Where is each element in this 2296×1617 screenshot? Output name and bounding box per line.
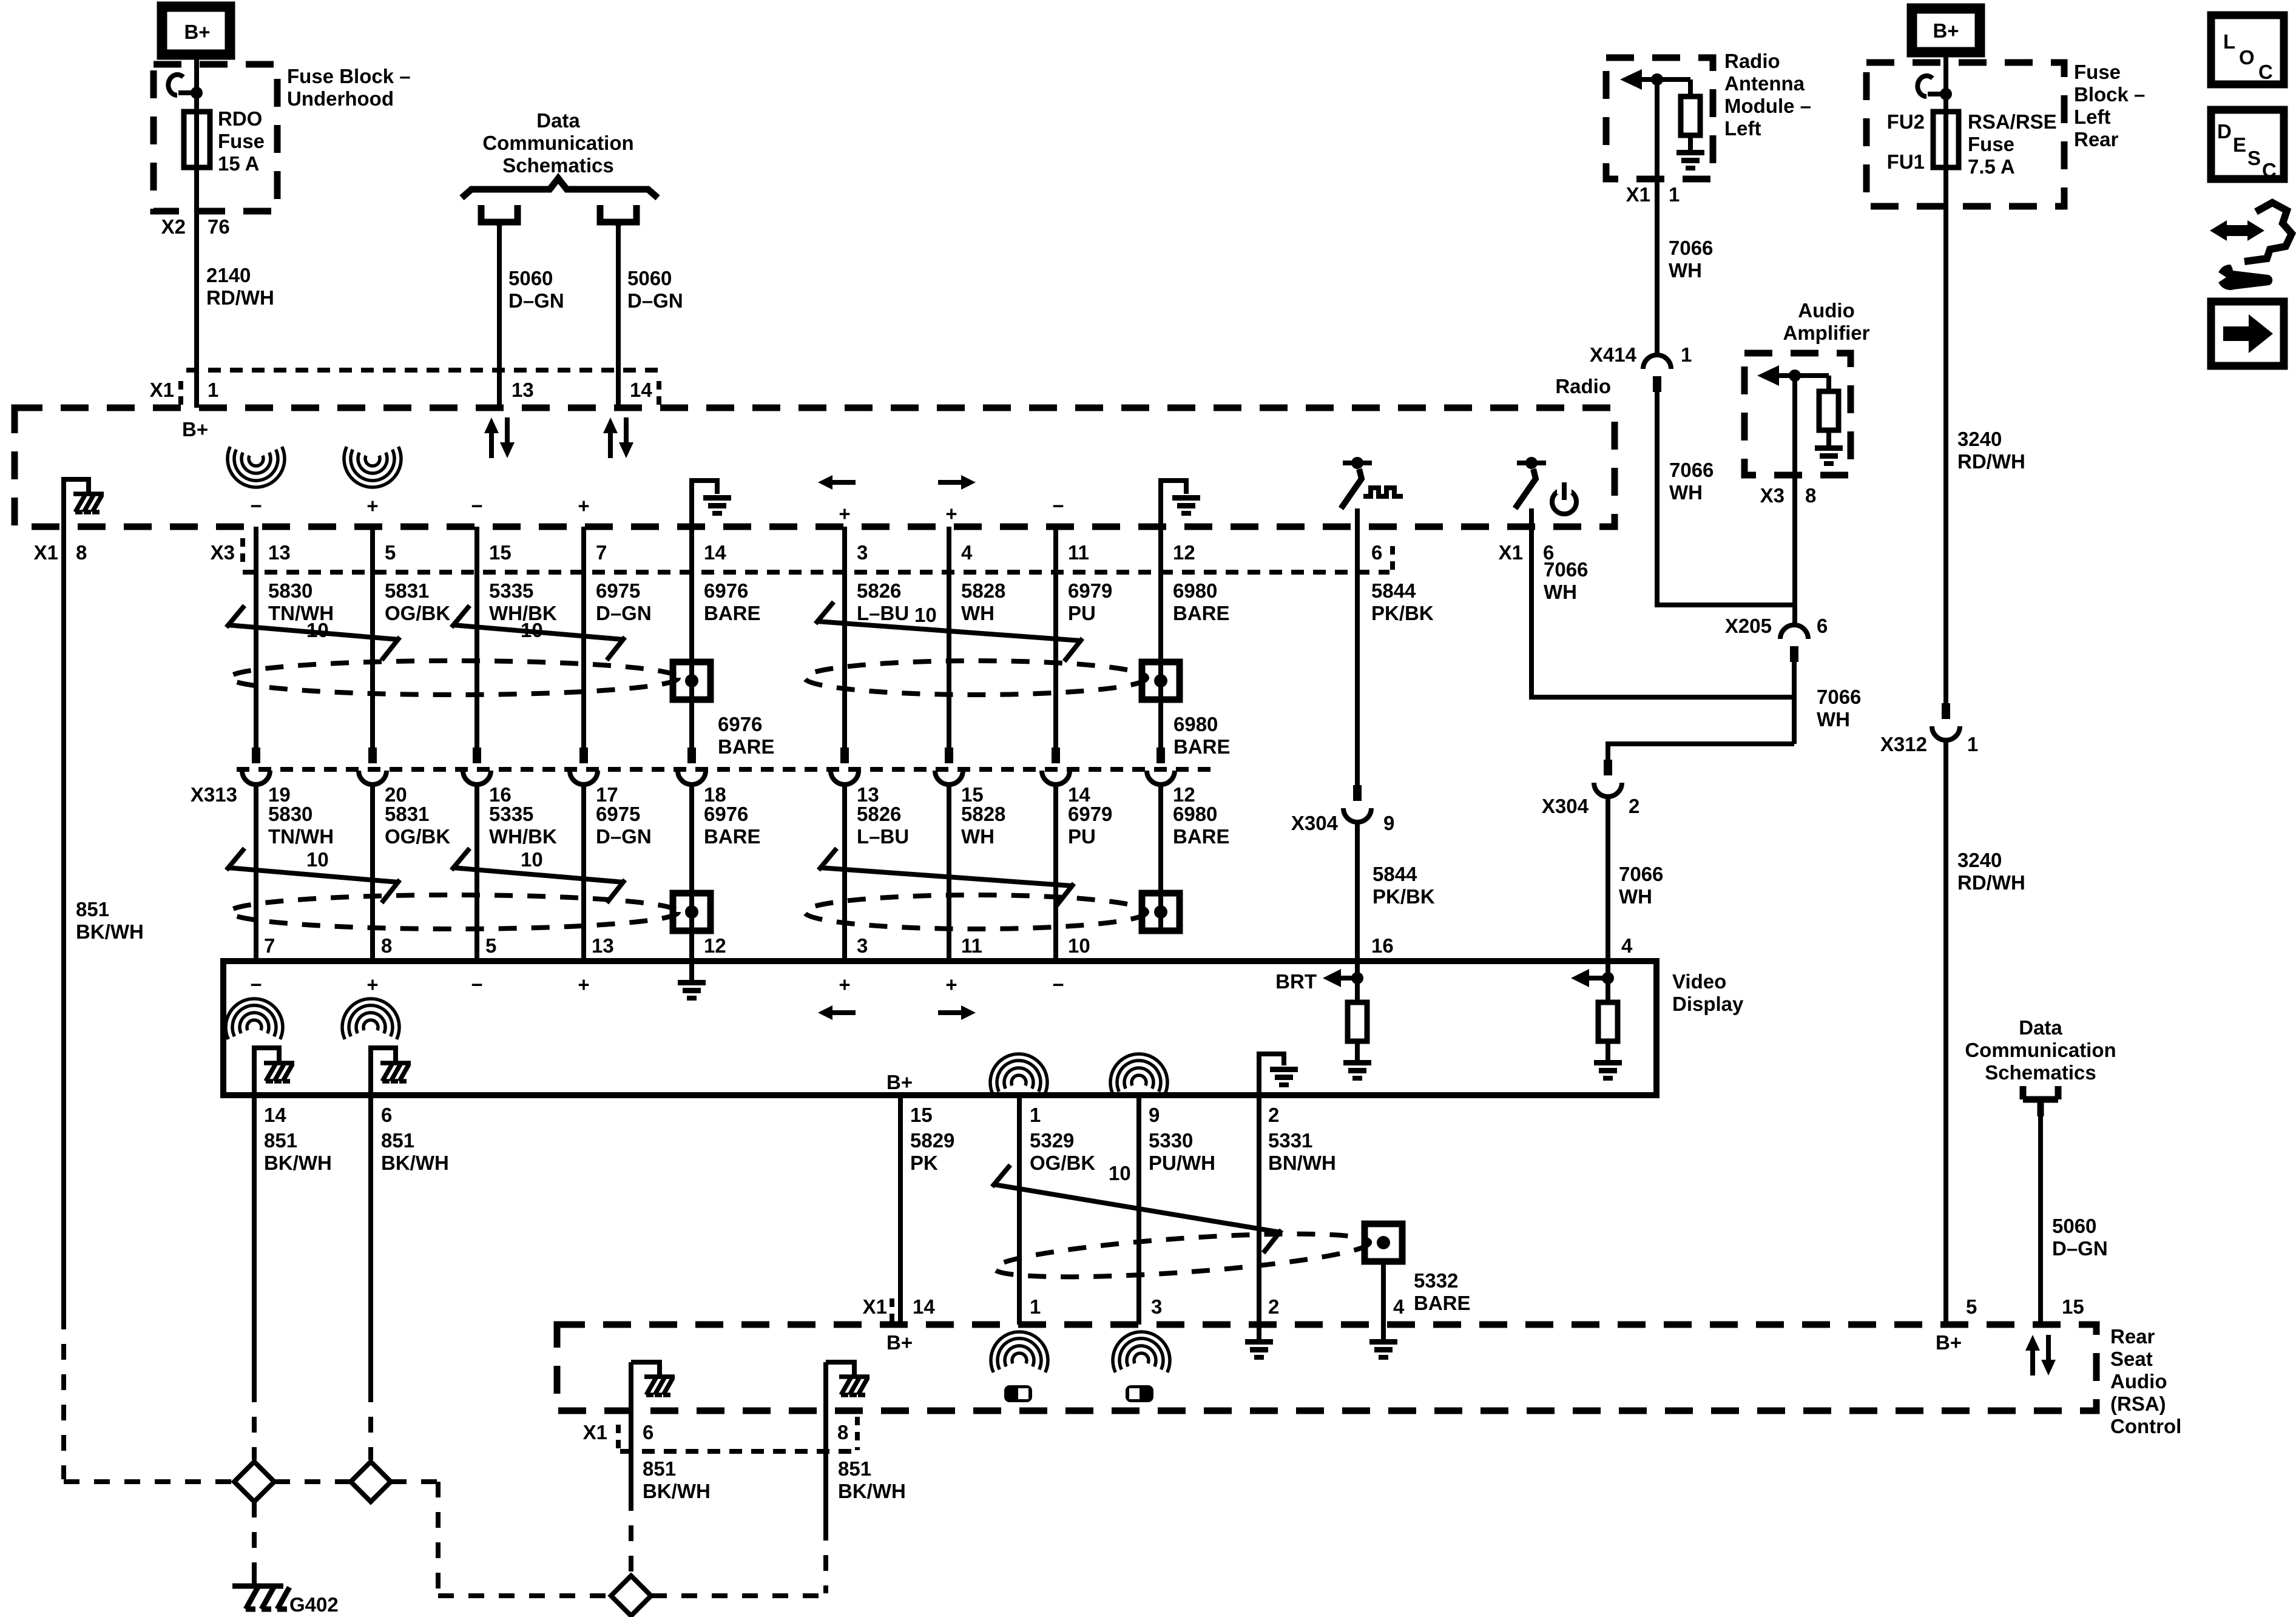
wire 851 BK/WH (vd pin 6)	[368, 1095, 373, 1386]
svg-text:4: 4	[1621, 934, 1633, 957]
wire 5332 BARE to RSA	[1381, 1261, 1386, 1325]
speaker arcs inside RSA (pin 1)	[991, 1332, 1048, 1372]
brace for data communication	[462, 178, 658, 198]
svg-text:7066: 7066	[1817, 686, 1861, 708]
video display pin labels (top)	[264, 934, 1633, 957]
svg-text:5332: 5332	[1414, 1269, 1458, 1292]
svg-text:WH: WH	[1544, 581, 1577, 603]
svg-text:Display: Display	[1672, 993, 1744, 1015]
fuse RSA/RSE	[1933, 112, 1959, 167]
svg-text:Communication: Communication	[1965, 1039, 2116, 1061]
svg-text:B+: B+	[1933, 19, 1959, 42]
fader icon (pin 1)	[1004, 1385, 1032, 1402]
svg-text:14: 14	[264, 1104, 286, 1126]
svg-text:WH/BK: WH/BK	[489, 825, 557, 848]
svg-text:Amplifier: Amplifier	[1783, 322, 1869, 344]
wire 7066 WH jog to X304	[1608, 744, 1794, 760]
shield ellipse (group 2 lower)	[805, 895, 1147, 929]
svg-text:B+: B+	[182, 418, 208, 441]
svg-text:PK: PK	[910, 1152, 938, 1174]
svg-text:BK/WH: BK/WH	[264, 1152, 332, 1174]
wire 6976 BARE upper	[689, 527, 694, 748]
wire label 5060 D-GN (right)	[2052, 1215, 2108, 1260]
svg-text:10: 10	[1068, 934, 1090, 957]
svg-text:11: 11	[961, 934, 982, 957]
Rear Seat Audio (RSA) Control label	[2110, 1325, 2181, 1437]
svg-text:Communication: Communication	[482, 132, 633, 154]
svg-text:BARE: BARE	[1173, 825, 1230, 848]
wire label 7066 WH (below X414)	[1669, 459, 1714, 504]
antenna arrow and junction dot	[1620, 69, 1690, 90]
svg-text:6979: 6979	[1068, 579, 1112, 602]
switch symbol (pin 6 mute)	[1341, 457, 1403, 527]
Fuse Block - Left Rear label	[2074, 61, 2145, 150]
svg-text:Data: Data	[536, 109, 580, 132]
svg-text:D–GN: D–GN	[627, 289, 683, 312]
amplifier ground	[1815, 430, 1843, 466]
svg-text:O: O	[2239, 46, 2255, 69]
shield ellipse (5329/5330)	[993, 1225, 1371, 1285]
svg-text:15: 15	[489, 541, 512, 564]
svg-text:OG/BK: OG/BK	[1030, 1152, 1095, 1174]
svg-text:Rear: Rear	[2110, 1325, 2155, 1348]
svg-text:Underhood: Underhood	[287, 87, 394, 110]
connector X3 pin 8 labels (amplifier)	[1760, 484, 1817, 507]
dashed wire below left diamond to G402	[252, 1502, 257, 1571]
svg-text:5: 5	[385, 541, 396, 564]
antenna ground	[1676, 135, 1704, 170]
svg-text:Left: Left	[2074, 106, 2111, 128]
svg-text:6979: 6979	[1068, 803, 1112, 825]
svg-text:Radio: Radio	[1724, 50, 1780, 72]
wire label 2140 RD/WH	[206, 264, 274, 309]
LOC icon box	[2211, 15, 2284, 84]
chassis ground inside RSA (X1-6)	[631, 1362, 675, 1395]
svg-text:Audio: Audio	[1798, 299, 1854, 322]
wire 851 BK/WH (vd pin 14)	[252, 1095, 257, 1386]
svg-text:BK/WH: BK/WH	[76, 920, 144, 943]
connector X1 row (radio top) dotted line	[186, 368, 661, 373]
svg-text:10: 10	[521, 619, 543, 641]
svg-text:Radio: Radio	[1555, 375, 1611, 397]
X3 tick	[240, 538, 245, 564]
wire 5828 WH upper	[947, 527, 951, 748]
shield ellipse (group 2 upper)	[805, 661, 1147, 695]
svg-text:RDO: RDO	[218, 107, 262, 130]
svg-text:2: 2	[1629, 795, 1639, 817]
wire labels below video display	[264, 1129, 1336, 1174]
resistor (BRT)	[1348, 1002, 1367, 1041]
svg-text:5844: 5844	[1371, 579, 1416, 602]
svg-text:Left: Left	[1724, 117, 1761, 140]
svg-text:X304: X304	[1291, 812, 1339, 834]
Audio Amplifier dashed box	[1744, 353, 1851, 475]
wire 5335 WH/BK upper	[474, 527, 479, 748]
svg-text:C: C	[2262, 159, 2277, 181]
svg-text:10: 10	[521, 848, 543, 871]
label 6980 BARE (below shield box)	[1173, 713, 1231, 758]
svg-text:−: −	[250, 973, 262, 996]
svg-text:Rear: Rear	[2074, 128, 2119, 150]
svg-text:5826: 5826	[857, 803, 901, 825]
svg-text:5830: 5830	[268, 579, 312, 602]
svg-text:BARE: BARE	[1173, 602, 1230, 624]
svg-text:BN/WH: BN/WH	[1268, 1152, 1336, 1174]
dashed link diamond to 851 right wire	[651, 1593, 826, 1598]
svg-text:7066: 7066	[1669, 237, 1713, 259]
svg-text:BK/WH: BK/WH	[643, 1480, 711, 1502]
svg-text:5828: 5828	[961, 803, 1005, 825]
X1 pin labels (bottom row)	[583, 1421, 849, 1443]
svg-text:5331: 5331	[1268, 1129, 1312, 1152]
svg-text:WH: WH	[1669, 481, 1703, 504]
svg-text:76: 76	[208, 215, 230, 238]
svg-text:−: −	[1052, 495, 1064, 517]
svg-text:L–BU: L–BU	[857, 602, 909, 624]
arrow left + (pin 3)	[818, 475, 856, 525]
svg-text:6976: 6976	[718, 713, 762, 735]
svg-text:Data: Data	[2019, 1016, 2062, 1039]
svg-text:1: 1	[1030, 1104, 1041, 1126]
antenna resistor	[1681, 79, 1700, 135]
svg-text:X205: X205	[1725, 615, 1772, 637]
wire labels 851 BK/WH (bottom)	[643, 1457, 906, 1502]
wire labels below X313	[268, 803, 1230, 848]
wire 5844 PK/BK X304 to video display	[1355, 822, 1360, 961]
arrow right + (pin 4)	[938, 475, 976, 525]
svg-text:5828: 5828	[961, 579, 1005, 602]
FU2 FU1 labels	[1887, 110, 1925, 173]
svg-text:12: 12	[704, 934, 726, 957]
svg-text:13: 13	[592, 934, 614, 957]
svg-text:(RSA): (RSA)	[2110, 1393, 2166, 1415]
X313 connector (18)	[678, 748, 706, 785]
small data link connector (right)	[2023, 1086, 2058, 1116]
wire 851 BK/WH (RSA X1-8) dashed	[823, 1525, 828, 1593]
wire 851 BK/WH (RSA X1-6) dashed	[629, 1495, 633, 1574]
wire 851 BK/WH from radio X1-8	[61, 527, 66, 1314]
svg-text:+: +	[366, 973, 378, 996]
svg-text:X1: X1	[150, 379, 174, 401]
svg-text:15: 15	[2062, 1295, 2084, 1318]
wire label 3240 RD/WH (lower)	[1957, 849, 2025, 894]
svg-text:1: 1	[1681, 343, 1692, 366]
svg-text:WH: WH	[961, 825, 994, 848]
svg-text:BARE: BARE	[1173, 735, 1231, 758]
wrench and arrows icon	[2210, 203, 2292, 290]
wire labels row below X3	[268, 558, 1588, 624]
ground symbol inside radio (X1-8)	[64, 479, 104, 527]
svg-text:FU1: FU1	[1887, 150, 1925, 173]
svg-text:D–GN: D–GN	[2052, 1237, 2108, 1260]
svg-text:PK/BK: PK/BK	[1371, 602, 1434, 624]
X313 connector (20)	[359, 748, 387, 785]
X1 tick (bottom row right)	[855, 1417, 860, 1450]
svg-text:RSA/RSE: RSA/RSE	[1968, 110, 2057, 133]
connector X1 row below RSA dotted	[620, 1449, 859, 1454]
wire label 7066 WH (above X414)	[1669, 237, 1713, 282]
X205 labels	[1725, 615, 1828, 637]
svg-text:6980: 6980	[1173, 579, 1217, 602]
svg-text:9: 9	[1149, 1104, 1160, 1126]
X3 tick right	[1390, 546, 1395, 572]
Fuse Block - Underhood dashed box	[154, 64, 277, 211]
svg-text:D–GN: D–GN	[596, 602, 652, 624]
svg-text:BARE: BARE	[718, 735, 775, 758]
X1 tick (bottom row left)	[616, 1425, 621, 1450]
Video Display box	[223, 961, 1656, 1095]
svg-text:3240: 3240	[1957, 849, 2002, 871]
svg-text:13: 13	[268, 541, 291, 564]
wire 7066 WH from radio switch (X1-6)	[1531, 527, 1794, 697]
svg-text:14: 14	[913, 1295, 935, 1318]
Rear Seat Audio control dashed box	[557, 1325, 2096, 1411]
ground symbol vd pin 12	[678, 961, 706, 1001]
svg-text:Fuse: Fuse	[1968, 133, 2014, 155]
svg-text:X312: X312	[1880, 733, 1927, 755]
connector X304 pin 2	[1594, 760, 1622, 797]
ground symbol inside radio (pin 14 bare)	[692, 481, 731, 527]
chassis ground inside RSA (X1-8)	[826, 1362, 869, 1395]
svg-text:7066: 7066	[1544, 558, 1588, 581]
speaker arcs (vd pin 7)	[226, 999, 283, 1039]
svg-text:5831: 5831	[385, 579, 429, 602]
twisted pair symbol (5826/5828 upper)	[815, 602, 1082, 661]
twisted pair symbol (5335/6975 upper)	[451, 606, 625, 660]
svg-text:15: 15	[910, 1104, 933, 1126]
Radio Antenna Module - Left dashed box	[1606, 58, 1713, 179]
shield box with dot (6980 lower)	[1142, 893, 1180, 931]
wire 7066 WH X304 to video display	[1606, 797, 1610, 961]
svg-text:Fuse: Fuse	[2074, 61, 2121, 83]
wire 5844 PK/BK radio to X304	[1355, 527, 1360, 785]
data in/out arrows (pin 13)	[484, 417, 515, 458]
svg-text:X313: X313	[191, 783, 237, 806]
X1 tick right	[657, 381, 661, 408]
ground symbol inside vd (pin 2)	[1259, 1054, 1298, 1095]
wire 5826 L-BU lower	[842, 785, 847, 961]
svg-text:X414: X414	[1590, 343, 1637, 366]
svg-text:16: 16	[1371, 934, 1394, 957]
svg-text:Schematics: Schematics	[1985, 1061, 2096, 1084]
svg-text:4: 4	[961, 541, 973, 564]
svg-text:15 A: 15 A	[218, 152, 259, 175]
svg-text:L: L	[2223, 30, 2235, 53]
svg-text:3: 3	[1151, 1295, 1162, 1318]
X304 pin 9 labels	[1291, 812, 1394, 834]
svg-text:Module –: Module –	[1724, 95, 1811, 117]
svg-text:B+: B+	[1936, 1331, 1962, 1354]
wire 5828 WH lower	[947, 785, 951, 961]
svg-text:5335: 5335	[489, 579, 533, 602]
svg-text:1: 1	[1030, 1295, 1041, 1318]
data in/out arrows inside RSA (pin 15)	[2025, 1335, 2056, 1376]
svg-text:−: −	[1052, 973, 1064, 996]
svg-text:12: 12	[1173, 541, 1195, 564]
connector X2 pin 76 labels	[161, 215, 230, 238]
amplifier resistor	[1819, 376, 1838, 430]
svg-text:G402: G402	[289, 1593, 339, 1616]
shield ellipse (group 1 lower)	[229, 895, 678, 929]
ground G402	[232, 1571, 339, 1616]
svg-text:X2: X2	[161, 215, 186, 238]
svg-text:5060: 5060	[2052, 1215, 2096, 1237]
DESC icon box	[2211, 110, 2284, 181]
svg-text:PK/BK: PK/BK	[1373, 885, 1435, 908]
svg-text:S: S	[2247, 147, 2261, 169]
chassis ground inside vd (pin 6)	[371, 1048, 411, 1095]
svg-text:6980: 6980	[1173, 713, 1218, 735]
wire 851 BK/WH (vd pin 6) dashed	[368, 1386, 373, 1460]
svg-text:OG/BK: OG/BK	[385, 825, 450, 848]
ground below pin 4 resistor	[1594, 1041, 1622, 1081]
wire B+ into fuse block	[1943, 52, 1948, 703]
svg-text:OG/BK: OG/BK	[385, 602, 450, 624]
ground inside RSA (pin 4)	[1369, 1325, 1397, 1360]
svg-text:PU: PU	[1068, 825, 1096, 848]
wire label 7066 WH (below X205)	[1817, 686, 1861, 731]
svg-text:RD/WH: RD/WH	[1957, 450, 2025, 473]
wire label 851 BK/WH (left)	[76, 898, 144, 943]
svg-text:D–GN: D–GN	[596, 825, 652, 848]
svg-text:8: 8	[837, 1421, 848, 1443]
X304 pin 2 labels	[1542, 795, 1639, 817]
X313 connector (17)	[570, 748, 598, 785]
X313 connector (19)	[242, 748, 270, 785]
svg-text:WH: WH	[1817, 708, 1850, 731]
wire 6979 PU upper	[1053, 527, 1058, 748]
svg-text:5060: 5060	[627, 267, 672, 289]
twisted pair symbol (5335/6975 lower)	[451, 848, 625, 903]
X313 pin labels	[191, 783, 1195, 806]
svg-text:6976: 6976	[704, 803, 748, 825]
wire 3240 RD/WH X312 to RSA	[1943, 740, 1948, 1325]
wire 5329 OG/BK	[1017, 1095, 1022, 1325]
shield box with dot (5332)	[1365, 1224, 1402, 1261]
svg-text:WH: WH	[1669, 259, 1702, 282]
svg-text:6: 6	[1371, 541, 1382, 564]
switch symbol (X1-6 power)	[1515, 457, 1576, 527]
svg-text:Audio: Audio	[2110, 1370, 2167, 1393]
svg-text:L–BU: L–BU	[857, 825, 909, 848]
svg-text:X1: X1	[34, 541, 58, 564]
svg-text:5844: 5844	[1373, 863, 1417, 885]
arrow (vd pin 4)	[1571, 969, 1608, 987]
wire label 5060 D-GN (13)	[508, 267, 564, 312]
svg-text:PU: PU	[1068, 602, 1096, 624]
svg-text:7066: 7066	[1619, 863, 1663, 885]
svg-text:8: 8	[76, 541, 87, 564]
RDO Fuse 15 A label	[218, 107, 265, 175]
svg-text:X304: X304	[1542, 795, 1589, 817]
X313 connector (13)	[831, 748, 859, 785]
twisted pair symbol (5830/5831 lower)	[226, 848, 400, 903]
svg-text:5: 5	[485, 934, 496, 957]
Data Communication Schematics label (top)	[482, 109, 633, 177]
svg-text:6975: 6975	[596, 803, 640, 825]
RSA pin labels (top)	[863, 1295, 2084, 1318]
svg-text:+: +	[578, 495, 589, 517]
svg-text:Fuse: Fuse	[218, 130, 265, 152]
svg-text:10: 10	[306, 848, 329, 871]
svg-text:5830: 5830	[268, 803, 312, 825]
speaker arcs (radio pin 13)	[228, 447, 285, 487]
svg-text:14: 14	[704, 541, 726, 564]
svg-text:3: 3	[857, 934, 868, 957]
svg-text:2140: 2140	[206, 264, 251, 286]
connector X313 dotted row	[237, 767, 1214, 772]
connector X304 pin 9	[1343, 785, 1371, 822]
label 5332 BARE	[1414, 1269, 1471, 1314]
svg-text:FU2: FU2	[1887, 110, 1925, 133]
svg-text:6975: 6975	[596, 579, 640, 602]
Data Communication Schematics label (right)	[1965, 1016, 2116, 1084]
X312 labels	[1880, 733, 1978, 755]
X313 connector (14)	[1042, 748, 1070, 785]
X414 labels	[1590, 343, 1692, 366]
svg-text:10: 10	[914, 604, 937, 626]
speaker arcs inside vd (pin 9)	[1110, 1054, 1167, 1095]
wire label 3240 RD/WH (upper)	[1957, 428, 2025, 473]
svg-text:Video: Video	[1672, 970, 1726, 993]
svg-text:WH: WH	[961, 602, 994, 624]
svg-text:2: 2	[1268, 1295, 1279, 1318]
svg-text:BARE: BARE	[704, 825, 761, 848]
shield box with dot (6980 upper)	[1142, 662, 1180, 700]
Radio Antenna Module - Left label	[1724, 50, 1811, 140]
svg-text:E: E	[2233, 133, 2246, 156]
svg-text:PU/WH: PU/WH	[1149, 1152, 1215, 1174]
svg-text:+: +	[839, 502, 850, 525]
X313 connector (15)	[935, 748, 963, 785]
svg-text:X3: X3	[1760, 484, 1784, 507]
svg-text:6976: 6976	[704, 579, 748, 602]
connector X1 pin 1 labels (antenna)	[1626, 183, 1680, 206]
wire 6980 BARE upper	[1158, 527, 1163, 748]
svg-text:C: C	[2258, 61, 2273, 83]
RSA/RSE Fuse 7.5 A label	[1968, 110, 2057, 178]
svg-text:7066: 7066	[1669, 459, 1714, 481]
svg-text:7: 7	[596, 541, 607, 564]
B+ power symbol (top right)	[1912, 8, 1980, 52]
svg-text:X1: X1	[1626, 183, 1650, 206]
wire 6976 BARE lower	[689, 785, 694, 961]
svg-text:10: 10	[1109, 1162, 1131, 1184]
wire B+ to fuse	[194, 55, 199, 408]
svg-text:B+: B+	[886, 1071, 913, 1093]
wire 5060 D-GN (pin 13)	[497, 226, 502, 408]
svg-text:14: 14	[630, 379, 652, 401]
fuse RDO F1	[184, 112, 210, 167]
svg-text:851: 851	[264, 1129, 297, 1152]
wire 851 BK/WH (RSA X1-6)	[629, 1362, 633, 1495]
svg-text:+: +	[945, 502, 957, 525]
wire 851 BK/WH (RSA X1-8)	[823, 1362, 828, 1525]
wire and junction dot (pin 4 inside)	[1602, 961, 1614, 1002]
polarity + with left arrow (vd pin 3)	[818, 973, 856, 1020]
connector X312 pin 1	[1932, 703, 1960, 740]
splice diamond (851 left)	[234, 1462, 274, 1502]
chassis ground inside vd (pin 14)	[254, 1048, 294, 1095]
fader icon (pin 3)	[1126, 1385, 1153, 1402]
resistor (pin 4)	[1598, 1002, 1618, 1041]
wire 7066 WH amplifier down	[1792, 376, 1797, 626]
wire 851 BK/WH dashed lower	[64, 1314, 234, 1482]
svg-text:6: 6	[381, 1104, 392, 1126]
svg-text:851: 851	[838, 1457, 871, 1480]
svg-text:RD/WH: RD/WH	[1957, 871, 2025, 894]
svg-text:8: 8	[381, 934, 392, 957]
